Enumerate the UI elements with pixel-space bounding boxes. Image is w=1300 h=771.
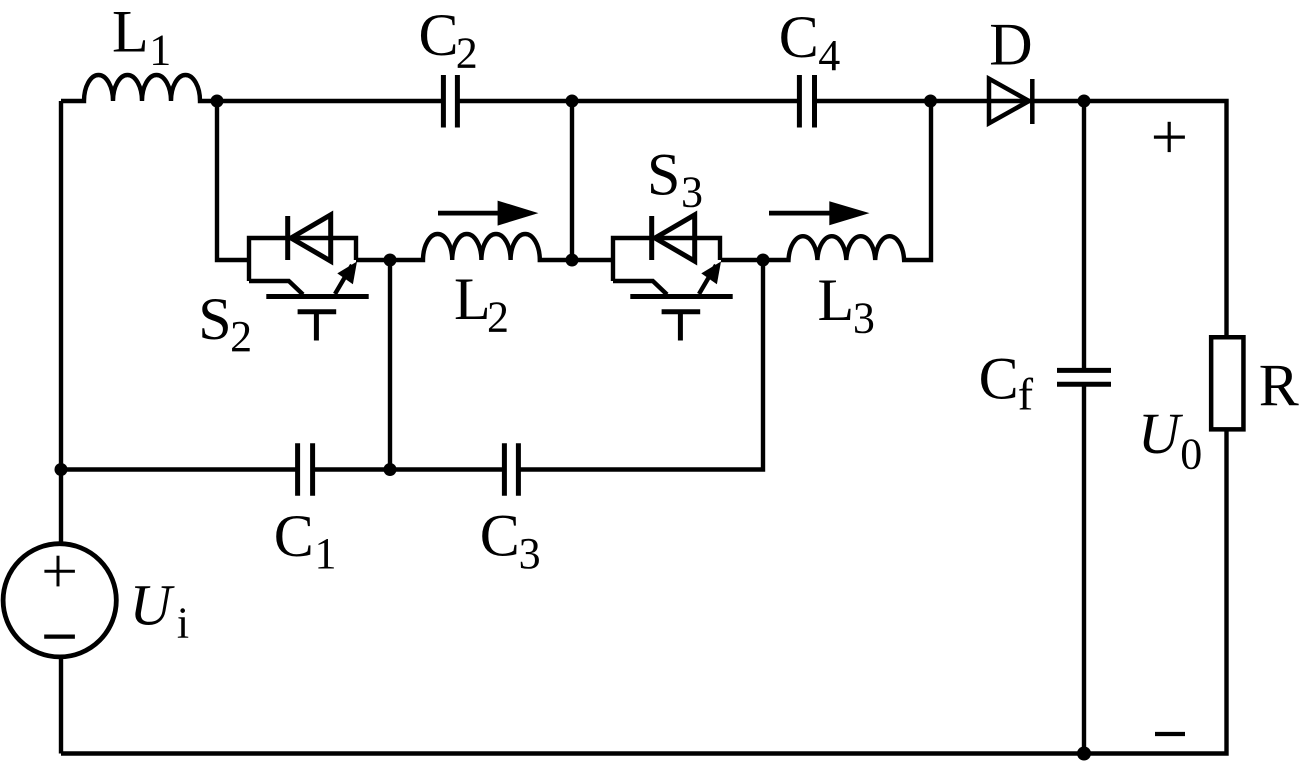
svg-text:2: 2 bbox=[230, 312, 252, 361]
svg-text:L: L bbox=[112, 0, 149, 65]
svg-text:0: 0 bbox=[1180, 429, 1202, 478]
svg-text:R: R bbox=[1259, 352, 1299, 418]
svg-text:C: C bbox=[274, 503, 314, 569]
svg-text:L: L bbox=[818, 267, 855, 333]
svg-text:4: 4 bbox=[818, 31, 840, 80]
svg-text:2: 2 bbox=[487, 293, 509, 342]
svg-text:C: C bbox=[480, 503, 520, 569]
svg-text:C: C bbox=[779, 4, 819, 70]
svg-text:i: i bbox=[177, 598, 189, 647]
svg-text:S: S bbox=[198, 286, 231, 352]
svg-text:2: 2 bbox=[456, 29, 478, 78]
svg-text:C: C bbox=[979, 345, 1019, 411]
svg-text:S: S bbox=[647, 141, 680, 207]
svg-text:U: U bbox=[130, 573, 176, 638]
svg-text:3: 3 bbox=[681, 168, 703, 217]
svg-text:1: 1 bbox=[315, 529, 337, 578]
svg-text:1: 1 bbox=[149, 26, 171, 75]
svg-text:D: D bbox=[989, 12, 1032, 78]
svg-text:3: 3 bbox=[519, 529, 541, 578]
svg-text:3: 3 bbox=[853, 293, 875, 342]
svg-text:C: C bbox=[419, 2, 459, 68]
svg-text:U: U bbox=[1138, 401, 1184, 466]
svg-text:f: f bbox=[1018, 369, 1034, 420]
svg-text:L: L bbox=[454, 266, 491, 332]
